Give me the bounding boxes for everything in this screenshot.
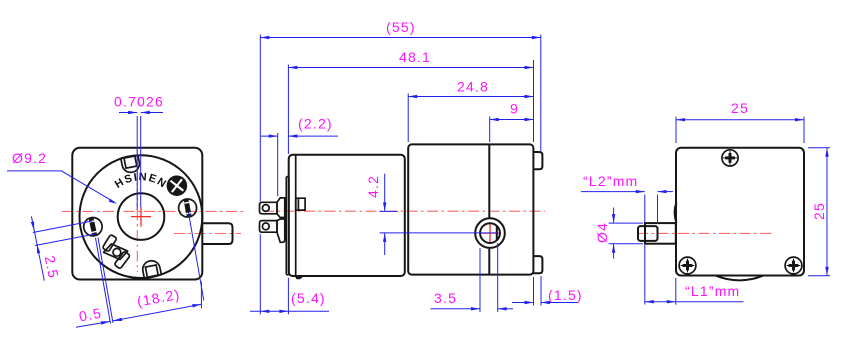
screw bottom left: [679, 257, 696, 274]
svg-text:4.2: 4.2: [365, 175, 381, 198]
terminal upper flare: [277, 198, 285, 218]
svg-text:25: 25: [811, 202, 827, 220]
svg-text:Ø4: Ø4: [594, 222, 610, 243]
bracket strap: [104, 244, 128, 260]
terminal lower: [260, 221, 278, 233]
motor can arc bottom: [716, 276, 764, 281]
svg-text:(2.2): (2.2): [298, 116, 333, 132]
centerline output shaft: [174, 233, 241, 235]
center cross gear circle: [131, 207, 151, 227]
terminal lower flare: [277, 219, 285, 242]
svg-text:“L1”mm: “L1”mm: [685, 283, 740, 299]
svg-text:9: 9: [510, 101, 519, 117]
cap foot wedge: [295, 277, 304, 280]
gearbox housing: [408, 144, 533, 274]
shaft D-flat: [496, 226, 498, 240]
svg-text:(1.5): (1.5): [548, 287, 583, 303]
svg-text:“L2”mm: “L2”mm: [583, 173, 638, 189]
gearbox square: [72, 148, 202, 280]
svg-text:(55): (55): [386, 19, 416, 35]
center cross output shaft: [479, 222, 501, 244]
svg-text:25: 25: [731, 100, 749, 116]
svg-text:3.5: 3.5: [434, 290, 457, 306]
bracket hole: [113, 248, 121, 256]
slotted screw left: [82, 216, 104, 238]
HSINEN logo text: [107, 180, 175, 204]
svg-text:Ø9.2: Ø9.2: [12, 150, 47, 166]
screw bottom right: [785, 257, 802, 274]
centerline shaft: [637, 232, 771, 234]
output shaft side: [645, 223, 676, 244]
svg-text:0.7026: 0.7026: [114, 94, 164, 110]
motor can arc left sliver: [675, 203, 677, 224]
top tab: [121, 155, 141, 174]
output shaft stub: [202, 223, 233, 244]
brush cap strip: [286, 177, 289, 275]
centerline motor axis: [263, 210, 545, 212]
gear center circle Ø9.2: [118, 193, 165, 240]
dimension 2.5: [31, 216, 95, 280]
slotted screw right: [177, 198, 198, 219]
shaft end D section: [638, 226, 658, 241]
output shaft circle: [480, 223, 500, 243]
cap clip: [296, 198, 305, 210]
output bushing outer: [475, 218, 505, 248]
phillips screw: [164, 173, 190, 199]
dimension 0.5 and (18.2): [76, 213, 204, 328]
bracket plate lower: [114, 251, 130, 269]
cap seam line: [295, 155, 297, 276]
svg-text:24.8: 24.8: [457, 79, 489, 95]
screw top: [722, 150, 738, 166]
mounting tab bottom right: [533, 256, 542, 273]
motor circle: [79, 155, 202, 278]
centerline vertical: [136, 148, 138, 272]
case split line: [488, 144, 490, 274]
motor body: [289, 155, 405, 276]
bottom tab: [141, 259, 161, 278]
bracket plate upper: [102, 234, 117, 251]
mounting tab top right: [533, 152, 542, 169]
svg-text:(5.4): (5.4): [291, 290, 326, 306]
svg-text:48.1: 48.1: [399, 49, 431, 65]
terminal upper: [260, 202, 278, 214]
gearbox square: [676, 148, 804, 276]
centerline horizontal motor axis: [62, 210, 245, 212]
